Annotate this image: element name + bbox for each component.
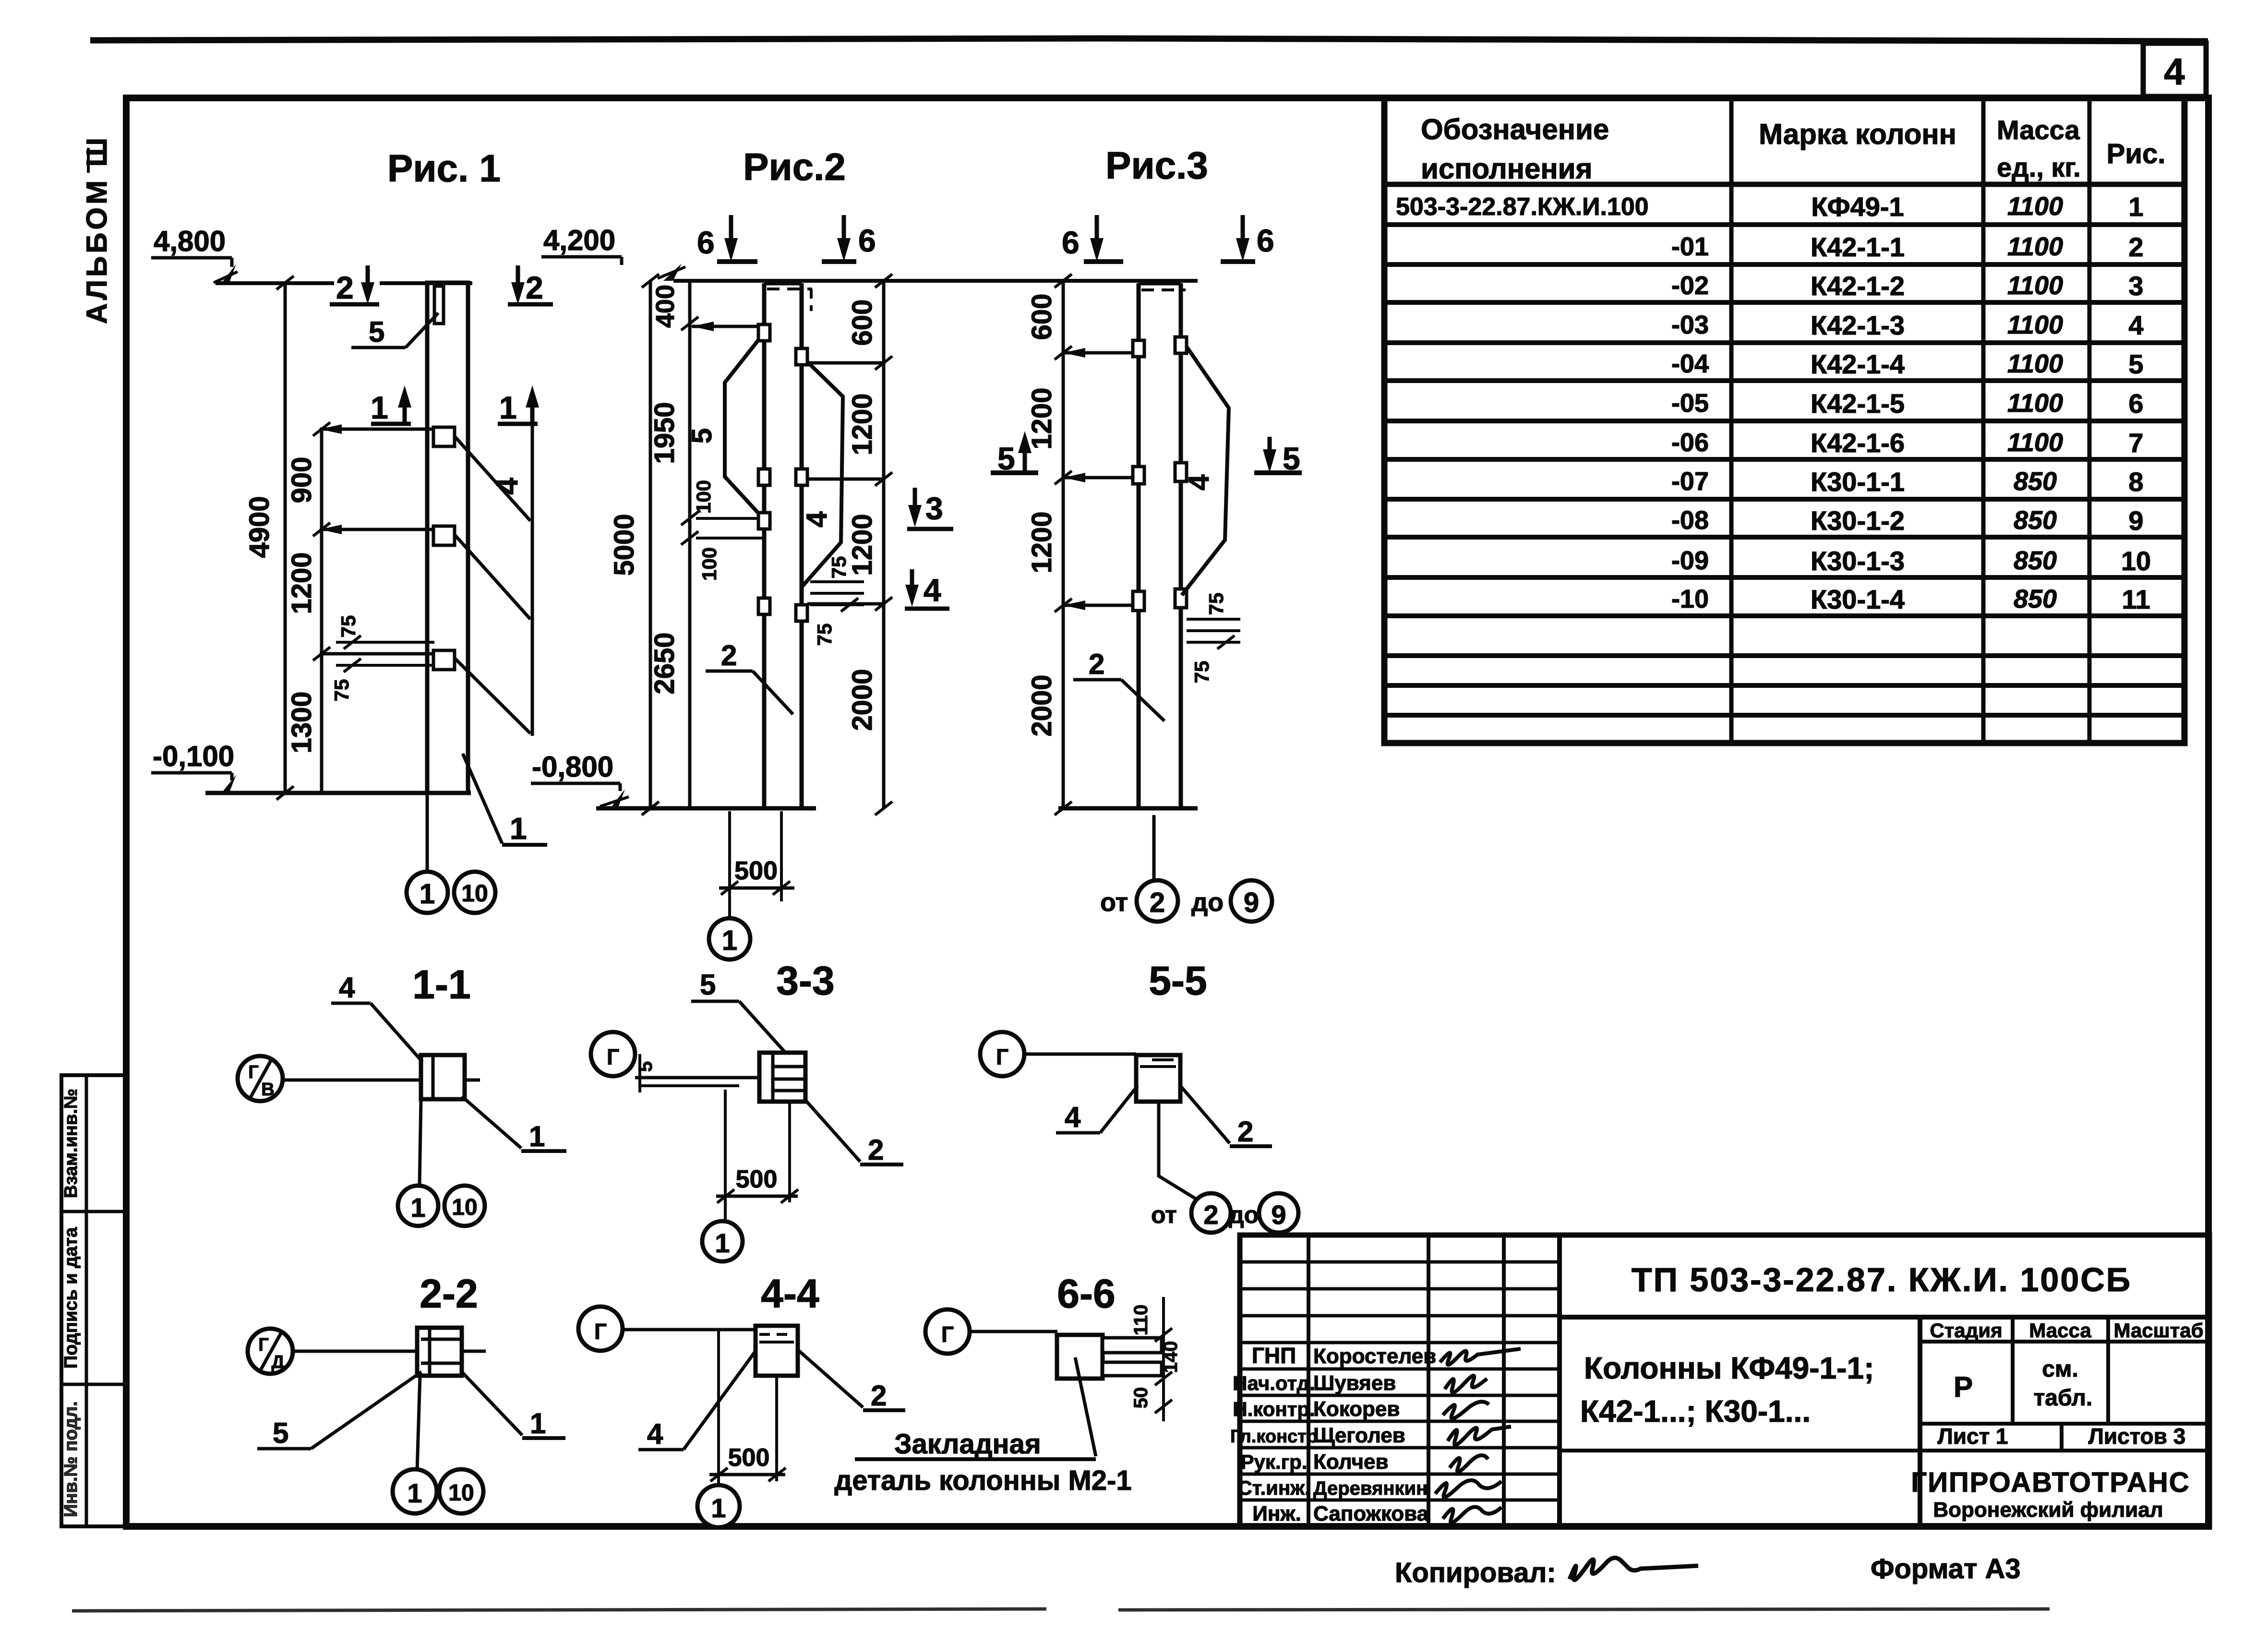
column section square 4-4: [756, 1326, 798, 1376]
svg-text:4: 4: [801, 511, 833, 528]
svg-text:1: 1: [722, 925, 737, 956]
svg-text:9: 9: [1244, 887, 1259, 918]
svg-text:Рис. 1: Рис. 1: [387, 147, 501, 190]
dim line 500: [719, 887, 794, 890]
svg-text:6: 6: [1257, 223, 1274, 258]
embedded plate c: [433, 650, 455, 670]
plates right edge Рис.2: [796, 348, 807, 365]
right mark drop line: [531, 424, 534, 736]
svg-text:500: 500: [736, 1165, 778, 1193]
svg-text:Деревянкин: Деревянкин: [1313, 1478, 1428, 1499]
column section square 1-1: [421, 1055, 465, 1099]
leader diagonals to plates (4): [455, 437, 530, 521]
table column dividers: [1729, 98, 1734, 743]
svg-text:Г: Г: [258, 1335, 269, 1355]
svg-text:3: 3: [925, 491, 943, 526]
table frame: [1384, 98, 2184, 743]
svg-text:Обозначение: Обозначение: [1421, 113, 1609, 145]
svg-text:ед., кг.: ед., кг.: [1997, 152, 2081, 182]
svg-text:75: 75: [1190, 661, 1213, 684]
svg-text:8: 8: [2128, 467, 2143, 497]
axis circle Г (6-6): [925, 1309, 970, 1354]
svg-text:850: 850: [2014, 585, 2057, 613]
svg-text:Марка колонн: Марка колонн: [1759, 118, 1956, 150]
svg-text:1950: 1950: [649, 402, 680, 464]
svg-text:-05: -05: [1671, 389, 1709, 418]
sidebar divider 2: [61, 1383, 126, 1386]
anchor bar bottom (6-6): [1103, 1362, 1162, 1376]
leader 2 (4-4): [798, 1350, 863, 1407]
svg-text:1: 1: [529, 1120, 545, 1152]
svg-text:9: 9: [1271, 1200, 1286, 1230]
axis drop line (2-2): [417, 1376, 420, 1470]
svg-text:В: В: [261, 1080, 274, 1100]
embedded plate b: [433, 526, 455, 545]
axis circle Г (4-4): [578, 1307, 623, 1351]
svg-text:АЛЬБОМ Ш: АЛЬБОМ Ш: [81, 135, 113, 324]
leader 1 (1-1): [462, 1096, 521, 1148]
signature table horizontals (empty rows): [1240, 1260, 1560, 1264]
svg-text:3-3: 3-3: [776, 958, 834, 1003]
plates right edge Рис.3: [1175, 337, 1187, 353]
svg-text:2: 2: [721, 639, 737, 672]
svg-text:Н.контр.: Н.контр.: [1233, 1398, 1315, 1420]
svg-text:Г: Г: [607, 1044, 619, 1069]
svg-text:10: 10: [461, 880, 488, 907]
mark circle 10: [454, 872, 495, 913]
svg-text:Лист 1: Лист 1: [1937, 1424, 2008, 1449]
mark circle 10 (2-2): [439, 1469, 483, 1513]
signature scribbles: [1440, 1349, 1521, 1365]
svg-text:500: 500: [734, 856, 778, 885]
shelf double line (3-3): [635, 1076, 759, 1080]
svg-text:1: 1: [420, 878, 435, 910]
svg-text:К42-1-2: К42-1-2: [1811, 271, 1905, 301]
svg-text:1200: 1200: [1026, 511, 1057, 573]
drawing frame: [126, 98, 2208, 1526]
mark circle 1 (3-3): [702, 1221, 743, 1261]
svg-text:5: 5: [273, 1417, 288, 1449]
axis line (2-2): [293, 1350, 486, 1353]
dim line 4900: [284, 283, 287, 793]
svg-text:5: 5: [369, 316, 384, 348]
top level line (4,200) across Рис.2 and Рис.3: [673, 279, 1198, 283]
svg-text:2: 2: [1150, 887, 1165, 918]
svg-text:от: от: [1151, 1201, 1177, 1228]
axis line (6-6): [970, 1330, 1057, 1333]
svg-text:2: 2: [1203, 1200, 1218, 1230]
стадия header rules: [1920, 1340, 2209, 1344]
svg-text:2000: 2000: [847, 669, 878, 731]
svg-text:К42-1-3: К42-1-3: [1811, 310, 1905, 340]
svg-text:Взам.инв.№: Взам.инв.№: [61, 1089, 81, 1198]
svg-text:1: 1: [2128, 192, 2143, 222]
svg-text:5: 5: [635, 1061, 656, 1072]
svg-text:110: 110: [1130, 1305, 1152, 1336]
svg-text:2000: 2000: [1026, 674, 1057, 736]
svg-text:Сапожкова: Сапожкова: [1313, 1502, 1429, 1525]
svg-text:Кокорев: Кокорев: [1313, 1397, 1400, 1421]
svg-text:Масса: Масса: [1997, 115, 2080, 145]
svg-text:75: 75: [330, 679, 353, 702]
75 marks Рис.3: [1187, 618, 1240, 621]
bottom line Рис.2 (-0,800): [596, 806, 816, 811]
svg-text:Копировал:: Копировал:: [1395, 1557, 1556, 1588]
svg-text:1: 1: [371, 390, 388, 425]
svg-text:1-1: 1-1: [412, 962, 470, 1007]
svg-text:К30-1-1: К30-1-1: [1811, 467, 1905, 497]
extension lines Рис.3: [1063, 351, 1139, 355]
svg-text:5-5: 5-5: [1149, 958, 1207, 1003]
svg-text:850: 850: [2014, 467, 2057, 496]
dim 500 (4-4): [717, 1330, 720, 1484]
svg-text:4: 4: [339, 972, 355, 1004]
svg-text:4,200: 4,200: [543, 224, 615, 256]
anchor bar top (6-6): [1103, 1338, 1162, 1353]
extension lines 500 dim: [728, 811, 731, 919]
svg-text:Колонны КФ49-1-1;: Колонны КФ49-1-1;: [1584, 1351, 1874, 1385]
svg-text:табл.: табл.: [2034, 1385, 2092, 1411]
svg-text:-06: -06: [1671, 428, 1709, 457]
svg-text:2-2: 2-2: [420, 1271, 478, 1316]
section mark 3: [913, 488, 917, 520]
plates left edge Рис.2: [758, 324, 770, 341]
svg-text:до: до: [1191, 888, 1224, 917]
left trapezoid reinforcement (5): [725, 325, 770, 518]
svg-text:Инж.: Инж.: [1252, 1502, 1301, 1525]
svg-text:1: 1: [530, 1407, 546, 1440]
svg-text:4: 4: [1183, 474, 1215, 491]
svg-text:4: 4: [1065, 1101, 1081, 1133]
level line 4,800: [216, 281, 334, 285]
svg-text:400: 400: [651, 285, 680, 328]
svg-text:-08: -08: [1671, 506, 1709, 535]
leader to Закладная деталь (6-6): [1075, 1357, 1096, 1456]
dim line 400/1950/100 100/2650: [688, 281, 692, 808]
column Рис.2: [762, 283, 767, 808]
divider before стадия table: [1918, 1317, 1922, 1526]
title block outer: [1240, 1235, 2209, 1526]
mark circle 1: [407, 872, 448, 913]
svg-text:К30-1-2: К30-1-2: [1811, 505, 1905, 536]
svg-text:75: 75: [1205, 593, 1227, 615]
svg-text:850: 850: [2014, 546, 2057, 575]
svg-text:Рис.2: Рис.2: [743, 145, 846, 188]
svg-text:Г: Г: [996, 1044, 1008, 1069]
svg-text:100: 100: [692, 480, 715, 514]
svg-text:2: 2: [2128, 232, 2143, 262]
svg-text:850: 850: [2014, 506, 2057, 535]
svg-text:Ст.инж.: Ст.инж.: [1237, 1476, 1310, 1499]
axis line (4-4): [623, 1328, 756, 1332]
svg-text:исполнения: исполнения: [1421, 153, 1593, 185]
svg-text:Д: Д: [271, 1352, 284, 1372]
svg-text:2: 2: [336, 270, 354, 305]
svg-text:140: 140: [1160, 1341, 1181, 1373]
svg-text:2: 2: [1089, 648, 1104, 680]
svg-text:К42-1-6: К42-1-6: [1811, 428, 1905, 458]
leader 2 (5-5): [1180, 1086, 1230, 1143]
extension line level 400 Рис.2: [692, 325, 758, 328]
axis line (5-5): [1024, 1053, 1136, 1056]
svg-text:2: 2: [526, 270, 543, 305]
svg-text:2: 2: [868, 1134, 884, 1166]
svg-text:Р: Р: [1954, 1371, 1973, 1403]
100 100 marks: [696, 517, 764, 520]
svg-text:3: 3: [2128, 271, 2143, 301]
svg-text:10: 10: [448, 1480, 474, 1506]
svg-text:Г: Г: [248, 1062, 259, 1082]
svg-text:2650: 2650: [649, 632, 680, 694]
extension line level 900: [320, 428, 446, 431]
svg-text:4: 4: [2128, 310, 2143, 340]
right dim line Рис.2 600/1200/1200/2000: [882, 281, 886, 808]
svg-text:5000: 5000: [609, 514, 640, 576]
svg-text:10: 10: [2121, 546, 2151, 576]
svg-text:КФ49-1: КФ49-1: [1811, 192, 1904, 222]
axis circle Г/Д (2-2): [248, 1329, 293, 1374]
svg-text:Стадия: Стадия: [1930, 1319, 2002, 1342]
column section square 3-3: [759, 1053, 805, 1102]
leader 1 column mark: [463, 754, 502, 843]
svg-text:6: 6: [1062, 225, 1080, 260]
page number box: [2143, 43, 2206, 96]
embedded plate a: [433, 427, 455, 446]
axis circle Г (3-3): [591, 1032, 635, 1076]
mark circle 10 (1-1): [444, 1186, 485, 1226]
axis drop line (5-5): [1159, 1102, 1196, 1199]
svg-text:1: 1: [715, 1228, 730, 1258]
dim line 900/1200/1300: [320, 429, 324, 793]
svg-text:Коростелев: Коростелев: [1313, 1344, 1436, 1368]
leader 1 (2-2): [462, 1372, 522, 1435]
svg-text:Воронежский филиал: Воронежский филиал: [1933, 1498, 2163, 1522]
mark circle 1 (1-1): [398, 1186, 438, 1226]
svg-text:100: 100: [698, 547, 720, 581]
extension line level 1300 with 75 marks: [320, 652, 446, 656]
svg-text:К42-1-4: К42-1-4: [1811, 349, 1905, 379]
extension lines right Рис.2: [807, 361, 884, 365]
svg-text:К30-1-3: К30-1-3: [1811, 546, 1905, 576]
column Рис.3: [1137, 283, 1141, 808]
column section square 2-2: [417, 1328, 462, 1376]
signature table verticals: [1307, 1235, 1310, 1526]
axis circle Г/В: [238, 1056, 283, 1101]
svg-text:К42-1-5: К42-1-5: [1811, 388, 1905, 419]
svg-text:до: до: [1229, 1201, 1259, 1228]
top embedded plate (5): [434, 286, 444, 324]
table row rules: [1384, 222, 2184, 227]
svg-text:11: 11: [2122, 584, 2150, 614]
svg-text:2: 2: [1237, 1116, 1253, 1148]
svg-text:-01: -01: [1671, 232, 1709, 261]
svg-text:Гл.констр: Гл.констр: [1230, 1427, 1318, 1447]
svg-text:Масса: Масса: [2029, 1319, 2091, 1342]
svg-text:1100: 1100: [2007, 192, 2063, 221]
svg-text:6: 6: [858, 223, 876, 258]
svg-text:1: 1: [711, 1493, 726, 1523]
left dim line Рис.3 600/1200/1200/2000: [1062, 281, 1065, 808]
plates left edge Рис.3: [1133, 340, 1144, 357]
svg-text:Рис.3: Рис.3: [1105, 144, 1208, 187]
svg-text:Листов 3: Листов 3: [2088, 1424, 2186, 1449]
svg-text:4: 4: [924, 572, 941, 608]
svg-text:4: 4: [647, 1418, 663, 1450]
svg-text:1200: 1200: [847, 514, 878, 576]
svg-text:6: 6: [697, 225, 715, 260]
svg-text:4-4: 4-4: [761, 1271, 819, 1316]
sidebar divider vertical: [85, 1075, 88, 1526]
svg-text:Щеголев: Щеголев: [1313, 1424, 1405, 1447]
svg-text:К30-1-4: К30-1-4: [1811, 584, 1905, 614]
svg-text:Г: Г: [941, 1322, 954, 1347]
top scan edge line: [90, 38, 2208, 41]
dim line 5000: [649, 281, 652, 808]
column Рис.1: [427, 283, 468, 793]
svg-text:600: 600: [1026, 294, 1057, 340]
svg-text:К42-1...; К30-1...: К42-1...; К30-1...: [1580, 1394, 1811, 1428]
svg-text:1: 1: [499, 390, 517, 425]
sidebar box: [61, 1075, 126, 1526]
svg-text:600: 600: [847, 300, 878, 346]
sidebar divider 1: [61, 1210, 126, 1213]
svg-text:см.: см.: [2042, 1356, 2078, 1382]
title block divider under designation: [1560, 1315, 2209, 1320]
svg-text:1: 1: [407, 1478, 422, 1508]
svg-text:50: 50: [1130, 1387, 1152, 1409]
svg-text:1100: 1100: [2007, 349, 2063, 378]
svg-text:75: 75: [813, 624, 836, 646]
svg-text:-0,800: -0,800: [532, 751, 613, 783]
svg-text:Г: Г: [594, 1319, 607, 1344]
bottom faint scan line: [72, 1609, 1046, 1611]
svg-text:503-3-22.87.КЖ.И.100: 503-3-22.87.КЖ.И.100: [1396, 193, 1649, 221]
plate dims 110/140/50 (6-6): [1162, 1297, 1165, 1421]
svg-text:Масштаб: Масштаб: [2113, 1319, 2203, 1342]
column section square 5-5: [1136, 1055, 1180, 1102]
svg-text:9: 9: [2128, 505, 2143, 536]
svg-text:1100: 1100: [2007, 389, 2063, 418]
svg-text:Нач.отд.: Нач.отд.: [1233, 1372, 1315, 1394]
dim 500 (3-3): [724, 1090, 727, 1222]
svg-text:4: 4: [490, 478, 524, 495]
axis drop line (1-1): [420, 1099, 421, 1186]
svg-text:от: от: [1100, 888, 1128, 917]
mark circle 1 Рис.2: [709, 918, 750, 960]
svg-text:1100: 1100: [2007, 232, 2063, 261]
dashed cap top: [767, 288, 812, 290]
svg-text:1200: 1200: [847, 393, 878, 455]
svg-text:-10: -10: [1671, 585, 1709, 613]
svg-text:4: 4: [2164, 50, 2184, 93]
svg-text:900: 900: [286, 457, 317, 504]
svg-text:-09: -09: [1671, 546, 1709, 575]
svg-text:Инв.№ подл.: Инв.№ подл.: [61, 1401, 81, 1517]
svg-text:5: 5: [2128, 349, 2143, 379]
svg-text:2: 2: [871, 1380, 887, 1412]
svg-text:ГНП: ГНП: [1252, 1343, 1296, 1368]
svg-text:Подпись и дата: Подпись и дата: [61, 1227, 81, 1368]
trapezoid reinforcement Рис.3 (4): [1182, 347, 1229, 595]
right trapezoid reinforcement (4): [803, 357, 843, 586]
section mark 4: [910, 569, 914, 600]
svg-text:4,800: 4,800: [154, 225, 226, 257]
mark circle 1 (2-2): [393, 1469, 437, 1513]
svg-text:Шувяев: Шувяев: [1313, 1371, 1396, 1395]
svg-text:5: 5: [700, 969, 716, 1001]
svg-text:Закладная: Закладная: [894, 1428, 1041, 1460]
bottom line Рис.3: [1058, 806, 1198, 811]
svg-text:1200: 1200: [286, 552, 317, 614]
mark circle 1 (4-4): [697, 1485, 740, 1527]
svg-text:1: 1: [410, 1192, 425, 1223]
svg-text:К42-1-1: К42-1-1: [1811, 232, 1905, 262]
svg-text:5: 5: [686, 428, 718, 444]
dashed cap top Рис.3: [1141, 288, 1186, 291]
svg-text:6: 6: [2128, 388, 2143, 419]
svg-text:Рук.гр.: Рук.гр.: [1241, 1451, 1308, 1473]
svg-text:-07: -07: [1671, 467, 1709, 496]
svg-text:Формат А3: Формат А3: [1871, 1553, 2021, 1584]
extension line level 1200: [320, 528, 446, 531]
svg-text:1100: 1100: [2007, 271, 2063, 300]
svg-text:-0,100: -0,100: [153, 740, 234, 772]
svg-text:-02: -02: [1671, 271, 1709, 300]
svg-text:1: 1: [510, 811, 527, 846]
embedded plate section 6-6: [1057, 1335, 1103, 1379]
75 marks Рис.2: [810, 580, 864, 583]
svg-text:ГИПРОАВТОТРАНС: ГИПРОАВТОТРАНС: [1911, 1467, 2190, 1498]
svg-text:1100: 1100: [2007, 428, 2063, 457]
overbar of roman III: [87, 148, 90, 173]
svg-text:4900: 4900: [244, 496, 275, 558]
column axis line to mark circle: [426, 793, 429, 872]
svg-text:ТП 503-3-22.87. КЖ.И. 100СБ: ТП 503-3-22.87. КЖ.И. 100СБ: [1632, 1261, 2132, 1298]
ground line -0,100: [205, 791, 471, 795]
table header rule: [1384, 182, 2184, 187]
svg-text:1200: 1200: [1026, 387, 1057, 449]
axis line 1-1: [283, 1079, 480, 1082]
svg-text:10: 10: [452, 1195, 477, 1220]
svg-text:-03: -03: [1671, 311, 1709, 339]
svg-text:6-6: 6-6: [1057, 1271, 1115, 1316]
axis circle Г (5-5): [980, 1032, 1024, 1076]
svg-text:1300: 1300: [286, 691, 317, 753]
signature rows rules: [1240, 1368, 1560, 1371]
копировал signature scribble: [1570, 1558, 1698, 1580]
svg-text:-04: -04: [1671, 349, 1709, 378]
svg-text:1100: 1100: [2007, 311, 2063, 339]
leader 2 (3-3): [805, 1100, 860, 1162]
axis line to circles Рис.3: [1152, 815, 1156, 880]
svg-text:500: 500: [728, 1444, 770, 1472]
svg-text:деталь колонны М2-1: деталь колонны М2-1: [834, 1465, 1131, 1496]
svg-text:Колчев: Колчев: [1313, 1450, 1389, 1474]
svg-text:7: 7: [2128, 428, 2143, 458]
svg-text:75: 75: [337, 615, 360, 638]
svg-text:Рис.: Рис.: [2107, 138, 2166, 169]
